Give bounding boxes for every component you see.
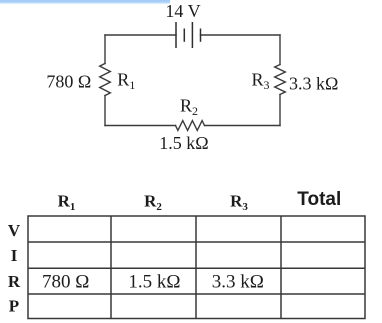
svg-text:P: P — [9, 297, 19, 316]
wire top-right segment — [201, 34, 281, 36]
battery B1 long plate 1 — [175, 22, 177, 48]
decorative top blue bar — [0, 0, 170, 5]
svg-text:1.5 kΩ: 1.5 kΩ — [159, 133, 208, 153]
resistor R2 zigzag — [176, 121, 205, 131]
svg-text:Total: Total — [297, 189, 341, 210]
svg-text:3.3 kΩ: 3.3 kΩ — [212, 272, 264, 293]
table grid — [28, 216, 365, 319]
wire bottom-left segment — [105, 125, 176, 127]
wire bottom-right segment — [205, 125, 281, 127]
battery B1 long plate 2 — [191, 22, 193, 48]
resistor R3 zigzag — [275, 65, 286, 95]
svg-text:780 Ω: 780 Ω — [42, 272, 89, 293]
svg-text:R1: R1 — [117, 70, 135, 93]
svg-text:I: I — [11, 246, 18, 265]
svg-text:R3: R3 — [230, 192, 248, 214]
svg-text:1.5 kΩ: 1.5 kΩ — [128, 272, 180, 293]
wire left side (top) — [104, 35, 106, 64]
svg-text:R2: R2 — [180, 96, 198, 119]
resistor R1 zigzag — [100, 64, 111, 96]
battery B1 short plate 1 — [183, 29, 185, 42]
battery B1 short plate 2 — [200, 29, 202, 42]
svg-text:R1: R1 — [58, 192, 76, 214]
svg-text:R: R — [8, 272, 21, 291]
wire right side (top) — [279, 35, 281, 65]
wire left side (bottom) — [104, 96, 106, 126]
svg-text:3.3 kΩ: 3.3 kΩ — [289, 74, 338, 94]
svg-text:R2: R2 — [144, 192, 162, 214]
svg-text:780 Ω: 780 Ω — [46, 71, 91, 91]
wire right side (bottom) — [279, 95, 281, 126]
svg-text:14 V: 14 V — [165, 1, 200, 21]
wire top-left segment — [105, 34, 176, 36]
svg-text:R3: R3 — [252, 70, 270, 93]
svg-text:V: V — [8, 221, 21, 240]
